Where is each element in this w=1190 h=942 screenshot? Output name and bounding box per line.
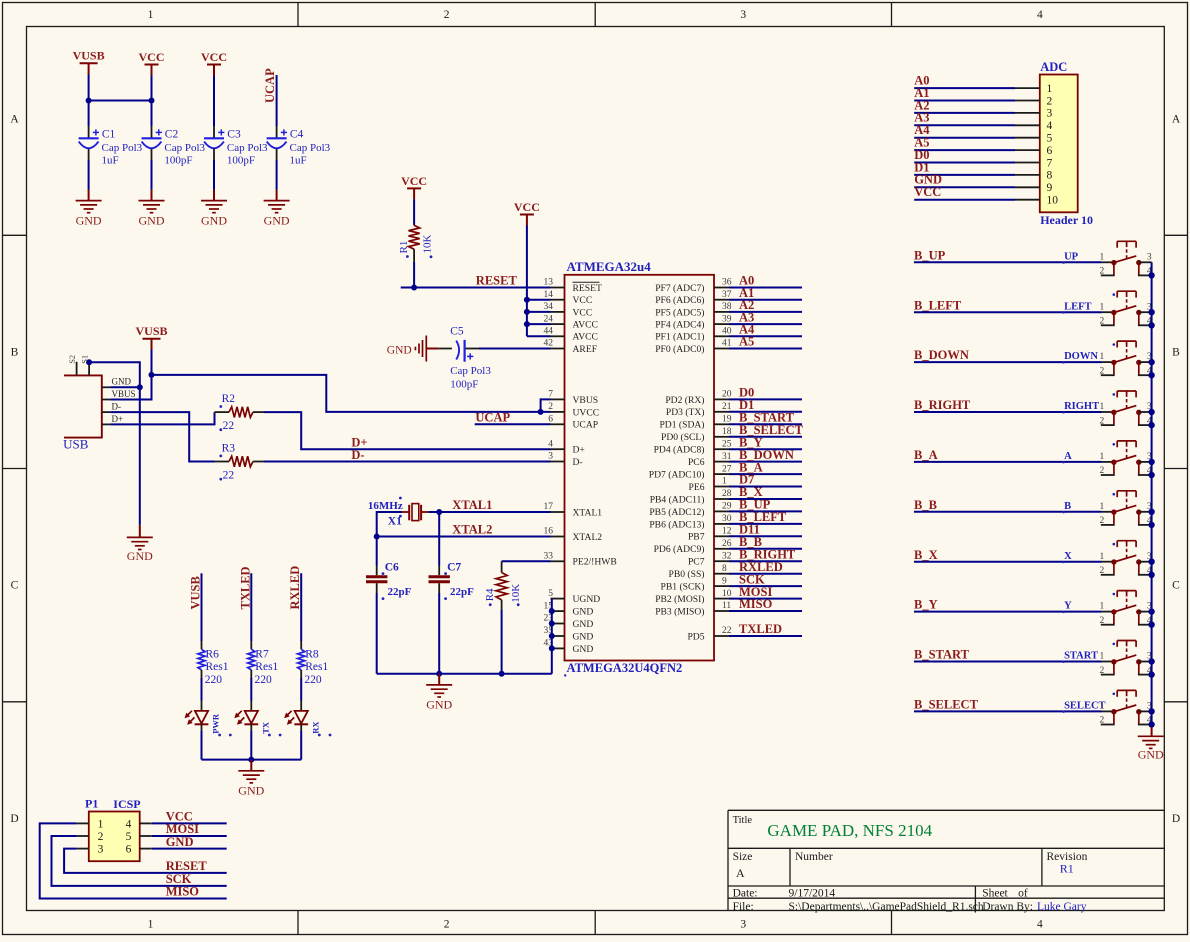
svg-text:GND: GND — [387, 344, 412, 356]
wire B_A — [914, 461, 1102, 463]
junction — [1148, 671, 1154, 677]
wire USB D- to R3 — [110, 412, 214, 461]
svg-text:27: 27 — [722, 464, 732, 474]
svg-text:100pF: 100pF — [164, 154, 192, 166]
svg-text:2: 2 — [1047, 95, 1053, 107]
svg-text:B_START: B_START — [914, 648, 970, 662]
wire B_Y — [914, 611, 1102, 613]
svg-text:3: 3 — [548, 452, 553, 462]
svg-text:D-: D- — [351, 448, 364, 462]
svg-text:26: 26 — [722, 539, 732, 549]
svg-text:C2: C2 — [165, 129, 179, 141]
power port VUSB (USB) — [135, 324, 167, 349]
wire MCU GND trunk — [551, 599, 553, 674]
U1 pin 33 PE2/!HWB — [544, 552, 617, 568]
wire XTAL1 net — [428, 511, 550, 513]
U1 pin 12 PB7 net D11 — [688, 523, 802, 543]
svg-text:GND: GND — [201, 214, 227, 228]
svg-text:1: 1 — [148, 919, 154, 931]
U1 pin 23 GND — [544, 614, 594, 630]
ground — [139, 190, 165, 228]
pushbutton SELECT — [1064, 690, 1152, 725]
junction — [149, 98, 155, 104]
U1 pin 24 AVCC — [544, 314, 598, 330]
svg-text:ICSP: ICSP — [113, 797, 140, 811]
capacitor C6 22pF — [366, 562, 412, 600]
svg-text:20: 20 — [722, 390, 732, 400]
svg-text:UP: UP — [1064, 251, 1079, 262]
capacitor C5 100pF — [439, 325, 492, 390]
svg-text:6: 6 — [548, 415, 553, 425]
svg-text:PD5: PD5 — [687, 631, 704, 642]
svg-text:LEFT: LEFT — [1064, 301, 1091, 312]
svg-text:1uF: 1uF — [290, 154, 307, 166]
svg-text:A: A — [10, 114, 19, 126]
svg-text:GND: GND — [1138, 747, 1164, 761]
svg-text:4: 4 — [1047, 120, 1053, 132]
svg-text:C3: C3 — [227, 129, 241, 141]
svg-text:34: 34 — [544, 302, 554, 312]
svg-text:10: 10 — [722, 589, 732, 599]
svg-text:R8: R8 — [305, 648, 319, 660]
svg-text:GND: GND — [573, 631, 594, 642]
junction — [538, 409, 544, 415]
resistor R3 22 — [215, 442, 265, 481]
svg-text:PF6 (ADC6): PF6 (ADC6) — [655, 295, 704, 306]
svg-text:VCC: VCC — [139, 50, 165, 64]
wire VCC pin14 — [527, 299, 551, 301]
junction — [1148, 572, 1154, 578]
wire — [413, 199, 415, 224]
title block — [728, 810, 1164, 913]
svg-text:5: 5 — [1047, 133, 1053, 145]
ADC pin 5 net A4 — [914, 123, 1052, 144]
crystal X1 16MHz — [368, 497, 429, 528]
pushbutton LEFT — [1064, 291, 1152, 326]
svg-text:XTAL2: XTAL2 — [573, 532, 603, 543]
ADC pin 3 net A2 — [914, 98, 1052, 119]
wire USB D+ to R2 — [110, 412, 214, 424]
svg-text:4: 4 — [1037, 9, 1043, 21]
wire USB GND pin — [110, 386, 140, 388]
svg-text:42: 42 — [544, 339, 554, 349]
svg-text:A: A — [1172, 114, 1181, 126]
wire VCC to C2 — [151, 76, 153, 127]
svg-text:2: 2 — [444, 919, 450, 931]
svg-text:R2: R2 — [222, 393, 236, 405]
junction — [524, 309, 530, 315]
svg-text:B_UP: B_UP — [914, 248, 946, 262]
ground (LEDs) — [238, 760, 264, 798]
svg-text:18: 18 — [722, 427, 732, 437]
svg-text:1: 1 — [1047, 83, 1053, 95]
svg-text:VCC: VCC — [514, 200, 540, 214]
svg-text:24: 24 — [544, 314, 554, 324]
junction — [1148, 409, 1154, 415]
svg-text:XTAL1: XTAL1 — [573, 507, 603, 518]
svg-text:R1: R1 — [398, 241, 410, 254]
LED RX — [284, 701, 331, 737]
wire B_START — [914, 661, 1102, 663]
junction — [248, 757, 254, 763]
svg-text:D: D — [10, 813, 18, 825]
svg-text:UCAP: UCAP — [263, 68, 277, 103]
svg-text:220: 220 — [205, 674, 223, 686]
junction — [1148, 658, 1154, 664]
U1 pin 15 GND — [544, 601, 594, 617]
svg-text:RESET: RESET — [476, 273, 518, 287]
wire — [151, 160, 153, 190]
svg-text:PC7: PC7 — [688, 557, 705, 568]
svg-text:RXLED: RXLED — [288, 566, 302, 610]
U1 pin 17 XTAL1 — [544, 502, 603, 518]
LED TX — [234, 701, 281, 737]
power port VUSB — [73, 49, 105, 75]
svg-text:1: 1 — [1100, 502, 1105, 512]
svg-text:PB0 (SS): PB0 (SS) — [669, 569, 705, 580]
USB connector J1 — [63, 355, 135, 451]
svg-text:RESET: RESET — [573, 283, 602, 294]
junction — [549, 608, 555, 614]
svg-text:2: 2 — [1100, 366, 1105, 376]
junction — [1148, 372, 1154, 378]
svg-text:AVCC: AVCC — [573, 320, 598, 331]
svg-text:C: C — [11, 580, 19, 592]
wire XTAL2 to C6 — [376, 537, 378, 566]
ADC pin 1 net A0 — [914, 74, 1052, 95]
svg-text:4: 4 — [126, 818, 132, 830]
wire UCAP to C4 — [276, 75, 278, 126]
wire P1 pin2 to SCK — [52, 836, 227, 886]
wire LED ground rail — [202, 759, 302, 761]
junction — [86, 359, 92, 365]
svg-text:PC6: PC6 — [688, 457, 705, 468]
junction — [1148, 472, 1154, 478]
U1 pin 37 PF6 (ADC6) net A1 — [655, 286, 802, 306]
svg-text:VCC: VCC — [401, 174, 427, 188]
svg-text:UCAP: UCAP — [475, 410, 510, 424]
ground (buttons) — [1138, 727, 1164, 761]
wire RXLED column — [300, 573, 302, 641]
svg-text:1: 1 — [1100, 652, 1105, 662]
wire P1 pin4 VCC — [152, 822, 227, 824]
wire shield S1 to GND net — [89, 362, 140, 525]
svg-text:2: 2 — [1100, 267, 1105, 277]
ADC pin 10 net VCC — [914, 185, 1058, 206]
svg-text:Cap Pol3: Cap Pol3 — [227, 142, 268, 154]
resistor R7 Res1 220 — [248, 641, 279, 686]
svg-text:1: 1 — [1100, 302, 1105, 312]
svg-text:2: 2 — [548, 402, 553, 412]
svg-text:GAME PAD, NFS 2104: GAME PAD, NFS 2104 — [767, 821, 932, 840]
svg-text:MISO: MISO — [739, 597, 773, 611]
ground — [201, 190, 227, 228]
svg-text:9: 9 — [722, 576, 727, 586]
svg-text:TXLED: TXLED — [739, 622, 782, 636]
svg-text:30: 30 — [722, 514, 732, 524]
svg-text:2: 2 — [1100, 317, 1105, 327]
junction — [524, 321, 530, 327]
wire AVCC pin44 — [527, 335, 551, 337]
U1 pin 39 PF4 (ADC4) net A3 — [655, 310, 802, 330]
svg-text:TX: TX — [261, 721, 271, 734]
svg-text:PD2 (RX): PD2 (RX) — [665, 395, 704, 406]
svg-text:100pF: 100pF — [450, 378, 478, 390]
svg-text:6: 6 — [126, 844, 132, 856]
svg-text:PB3 (MISO): PB3 (MISO) — [655, 606, 704, 617]
svg-text:R1: R1 — [1060, 861, 1074, 875]
wire R6 to LED — [201, 678, 203, 701]
svg-text:3: 3 — [1147, 252, 1152, 262]
svg-text:39: 39 — [722, 314, 732, 324]
U1 pin 32 PC7 net B_RIGHT — [688, 547, 802, 567]
svg-text:Sheet: Sheet — [982, 888, 1008, 900]
svg-text:1: 1 — [1100, 402, 1105, 412]
svg-text:22pF: 22pF — [388, 586, 412, 598]
svg-text:16: 16 — [544, 527, 554, 537]
header P1 ICSP body — [85, 797, 141, 862]
svg-text:PD0 (SCL): PD0 (SCL) — [661, 432, 704, 443]
wire VCC to C3 — [213, 76, 215, 127]
svg-text:1: 1 — [1100, 552, 1105, 562]
svg-text:PB1 (SCK): PB1 (SCK) — [661, 582, 705, 593]
svg-text:10: 10 — [1047, 195, 1059, 207]
U1 pin 6 UCAP — [548, 415, 598, 431]
svg-text:XTAL1: XTAL1 — [452, 498, 492, 512]
svg-text:1: 1 — [98, 818, 104, 830]
junction — [436, 509, 442, 515]
svg-text:B: B — [11, 346, 19, 358]
wire XTAL2 net — [377, 536, 551, 538]
svg-text:RX: RX — [310, 721, 320, 734]
svg-text:AVCC: AVCC — [573, 332, 598, 343]
pushbutton START — [1064, 641, 1152, 676]
svg-text:5: 5 — [548, 589, 553, 599]
svg-text:Res1: Res1 — [305, 661, 328, 673]
capacitor C4 1uF — [267, 126, 331, 166]
U1 pin 16 XTAL2 — [544, 527, 603, 543]
junction — [1148, 422, 1154, 428]
wire C7 to rail — [438, 593, 440, 674]
svg-text:Y: Y — [1064, 601, 1072, 612]
junction — [1148, 622, 1154, 628]
svg-text:1: 1 — [1100, 352, 1105, 362]
svg-text:VUSB: VUSB — [189, 576, 203, 609]
U1 pin 35 GND — [544, 626, 594, 642]
svg-text:16MHz: 16MHz — [368, 500, 403, 512]
wire USB VBUS pin to VUSB — [110, 375, 151, 400]
svg-text:28: 28 — [722, 489, 732, 499]
U1 pin 38 PF5 (ADC5) net A2 — [655, 298, 802, 318]
svg-text:1: 1 — [1100, 252, 1105, 262]
U1 pin 44 AVCC — [544, 327, 598, 343]
svg-text:S2: S2 — [67, 355, 77, 364]
pushbutton X — [1064, 541, 1152, 576]
svg-text:6: 6 — [1047, 145, 1053, 157]
P1 pin 6 — [126, 844, 152, 856]
wire R2 to D+ net — [264, 412, 551, 449]
svg-text:B_B: B_B — [914, 498, 937, 512]
svg-text:Res1: Res1 — [206, 661, 229, 673]
U1 pin 28 PB4 (ADC11) net B_X — [650, 485, 802, 505]
svg-text:AREF: AREF — [573, 344, 598, 355]
svg-text:PF4 (ADC4): PF4 (ADC4) — [655, 320, 704, 331]
svg-text:B_DOWN: B_DOWN — [914, 348, 969, 362]
P1 pin 5 — [126, 831, 152, 843]
junction — [137, 384, 143, 390]
svg-text:4: 4 — [1037, 919, 1043, 931]
svg-text:D+: D+ — [573, 445, 585, 456]
svg-text:GND: GND — [76, 214, 102, 228]
wire VUSB column — [201, 573, 203, 641]
U1 pin 2 UVCC — [548, 402, 599, 418]
wire ground rail — [377, 673, 552, 675]
U1 pin 29 PB5 (ADC12) net B_UP — [649, 498, 802, 518]
svg-text:22: 22 — [223, 469, 235, 481]
svg-text:9: 9 — [1047, 182, 1053, 194]
ground — [264, 190, 290, 228]
wire — [88, 160, 90, 190]
power port VCC (R1) — [401, 174, 427, 200]
power port VCC (C2) — [139, 50, 165, 76]
svg-text:3: 3 — [740, 919, 746, 931]
svg-text:31: 31 — [722, 452, 732, 462]
svg-text:C7: C7 — [447, 562, 461, 574]
svg-text:GND: GND — [573, 619, 594, 630]
svg-text:PD3 (TX): PD3 (TX) — [666, 407, 705, 418]
U1 pin 26 PD6 (ADC9) net B_B — [654, 535, 802, 555]
svg-text:3: 3 — [98, 844, 104, 856]
U1 pin 31 PC6 net B_DOWN — [688, 448, 802, 468]
wire — [213, 160, 215, 190]
svg-text:PB5 (ADC12): PB5 (ADC12) — [649, 507, 704, 518]
svg-text:R7: R7 — [255, 648, 269, 660]
svg-text:B_A: B_A — [914, 448, 938, 462]
svg-text:START: START — [1064, 651, 1098, 662]
svg-text:of: of — [1018, 888, 1028, 900]
U1 pin 41 PF0 (ADC0) net A5 — [655, 335, 802, 355]
svg-text:ATMEGA32u4: ATMEGA32u4 — [567, 259, 652, 274]
svg-text:Title: Title — [733, 815, 753, 826]
ADC pin 7 net D0 — [914, 148, 1052, 169]
wire AVCC pin24 — [527, 323, 551, 325]
header ADC Header 10 body — [1040, 60, 1093, 227]
svg-text:1: 1 — [1100, 452, 1105, 462]
svg-text:ATMEGA32U4QFN2: ATMEGA32U4QFN2 — [567, 661, 683, 675]
svg-text:Size: Size — [733, 851, 753, 863]
svg-text:220: 220 — [304, 674, 322, 686]
svg-text:PWR: PWR — [211, 713, 221, 734]
U1 pin 13 RESET — [544, 278, 602, 294]
svg-text:VCC: VCC — [573, 307, 593, 318]
junction — [549, 621, 555, 627]
svg-text:Cap Pol3: Cap Pol3 — [290, 142, 331, 154]
wire — [276, 160, 278, 190]
junction — [411, 285, 417, 291]
svg-text:8: 8 — [1047, 170, 1053, 182]
wire P1 pin1 to MISO — [40, 823, 227, 898]
junction — [1148, 721, 1154, 727]
wire C6 to rail — [376, 593, 378, 674]
svg-text:14: 14 — [544, 290, 554, 300]
svg-text:Number: Number — [795, 851, 833, 863]
U1 pin 42 AREF — [544, 339, 598, 355]
svg-text:VCC: VCC — [201, 50, 227, 64]
junction — [549, 645, 555, 651]
wire P1 pin6 GND — [152, 848, 227, 850]
svg-text:B: B — [1172, 346, 1180, 358]
wire TXLED column — [250, 573, 252, 641]
svg-text:GND: GND — [127, 549, 153, 563]
LED PWR — [185, 701, 232, 737]
svg-text:A: A — [1064, 451, 1072, 462]
svg-text:PE2/!HWB: PE2/!HWB — [573, 557, 617, 568]
U1 pin 27 PD7 (ADC10) net B_A — [649, 460, 802, 480]
svg-text:P1: P1 — [85, 797, 98, 811]
svg-text:A: A — [736, 866, 745, 880]
svg-text:VUSB: VUSB — [135, 324, 167, 338]
svg-text:RIGHT: RIGHT — [1064, 401, 1099, 412]
svg-text:100pF: 100pF — [227, 154, 255, 166]
svg-text:PB2 (MOSI): PB2 (MOSI) — [655, 594, 704, 605]
wire B_SELECT — [914, 710, 1102, 712]
svg-text:GND: GND — [264, 214, 290, 228]
svg-text:2: 2 — [1100, 516, 1105, 526]
U1 pin 11 PB3 (MISO) net MISO — [655, 597, 802, 617]
wire R3 to D- net — [264, 461, 551, 463]
svg-text:D-: D- — [573, 457, 583, 468]
svg-text:XTAL2: XTAL2 — [452, 522, 492, 536]
svg-text:PE6: PE6 — [689, 482, 705, 493]
svg-text:220: 220 — [255, 674, 273, 686]
svg-text:11: 11 — [722, 601, 731, 611]
svg-text:B_X: B_X — [914, 548, 938, 562]
svg-text:Cap Pol3: Cap Pol3 — [102, 142, 143, 154]
svg-text:TXLED: TXLED — [238, 566, 252, 609]
svg-text:UVCC: UVCC — [573, 407, 600, 418]
svg-text:25: 25 — [722, 439, 732, 449]
svg-text:D-: D- — [112, 402, 122, 412]
svg-text:40: 40 — [722, 327, 732, 337]
ground — [76, 190, 102, 228]
svg-text:2: 2 — [1100, 716, 1105, 726]
svg-text:3: 3 — [740, 9, 746, 21]
junction — [1148, 272, 1154, 278]
junction — [86, 98, 92, 104]
svg-text:38: 38 — [722, 302, 732, 312]
capacitor C2 100pF — [142, 126, 206, 166]
svg-text:A5: A5 — [739, 335, 754, 349]
junction — [1148, 608, 1154, 614]
svg-text:2: 2 — [444, 9, 450, 21]
junction — [374, 534, 380, 540]
junction — [1148, 459, 1154, 465]
pushbutton Y — [1064, 591, 1152, 626]
svg-text:Drawn By:: Drawn By: — [982, 901, 1033, 913]
U1 pin 14 VCC — [544, 290, 593, 306]
U1 pin 9 PB1 (SCK) net SCK — [661, 572, 802, 592]
svg-text:7: 7 — [1047, 157, 1053, 169]
wire R1 to RESET — [413, 262, 415, 288]
svg-text:GND: GND — [166, 835, 194, 849]
svg-text:1: 1 — [148, 9, 154, 21]
wire B_LEFT — [914, 311, 1102, 313]
svg-text:R3: R3 — [222, 442, 236, 454]
wire UCAP net — [475, 423, 551, 425]
junction — [499, 671, 505, 677]
U1 pin 22 PD5 net TXLED — [687, 622, 802, 642]
wire VUSB-VCC rail — [89, 100, 152, 102]
